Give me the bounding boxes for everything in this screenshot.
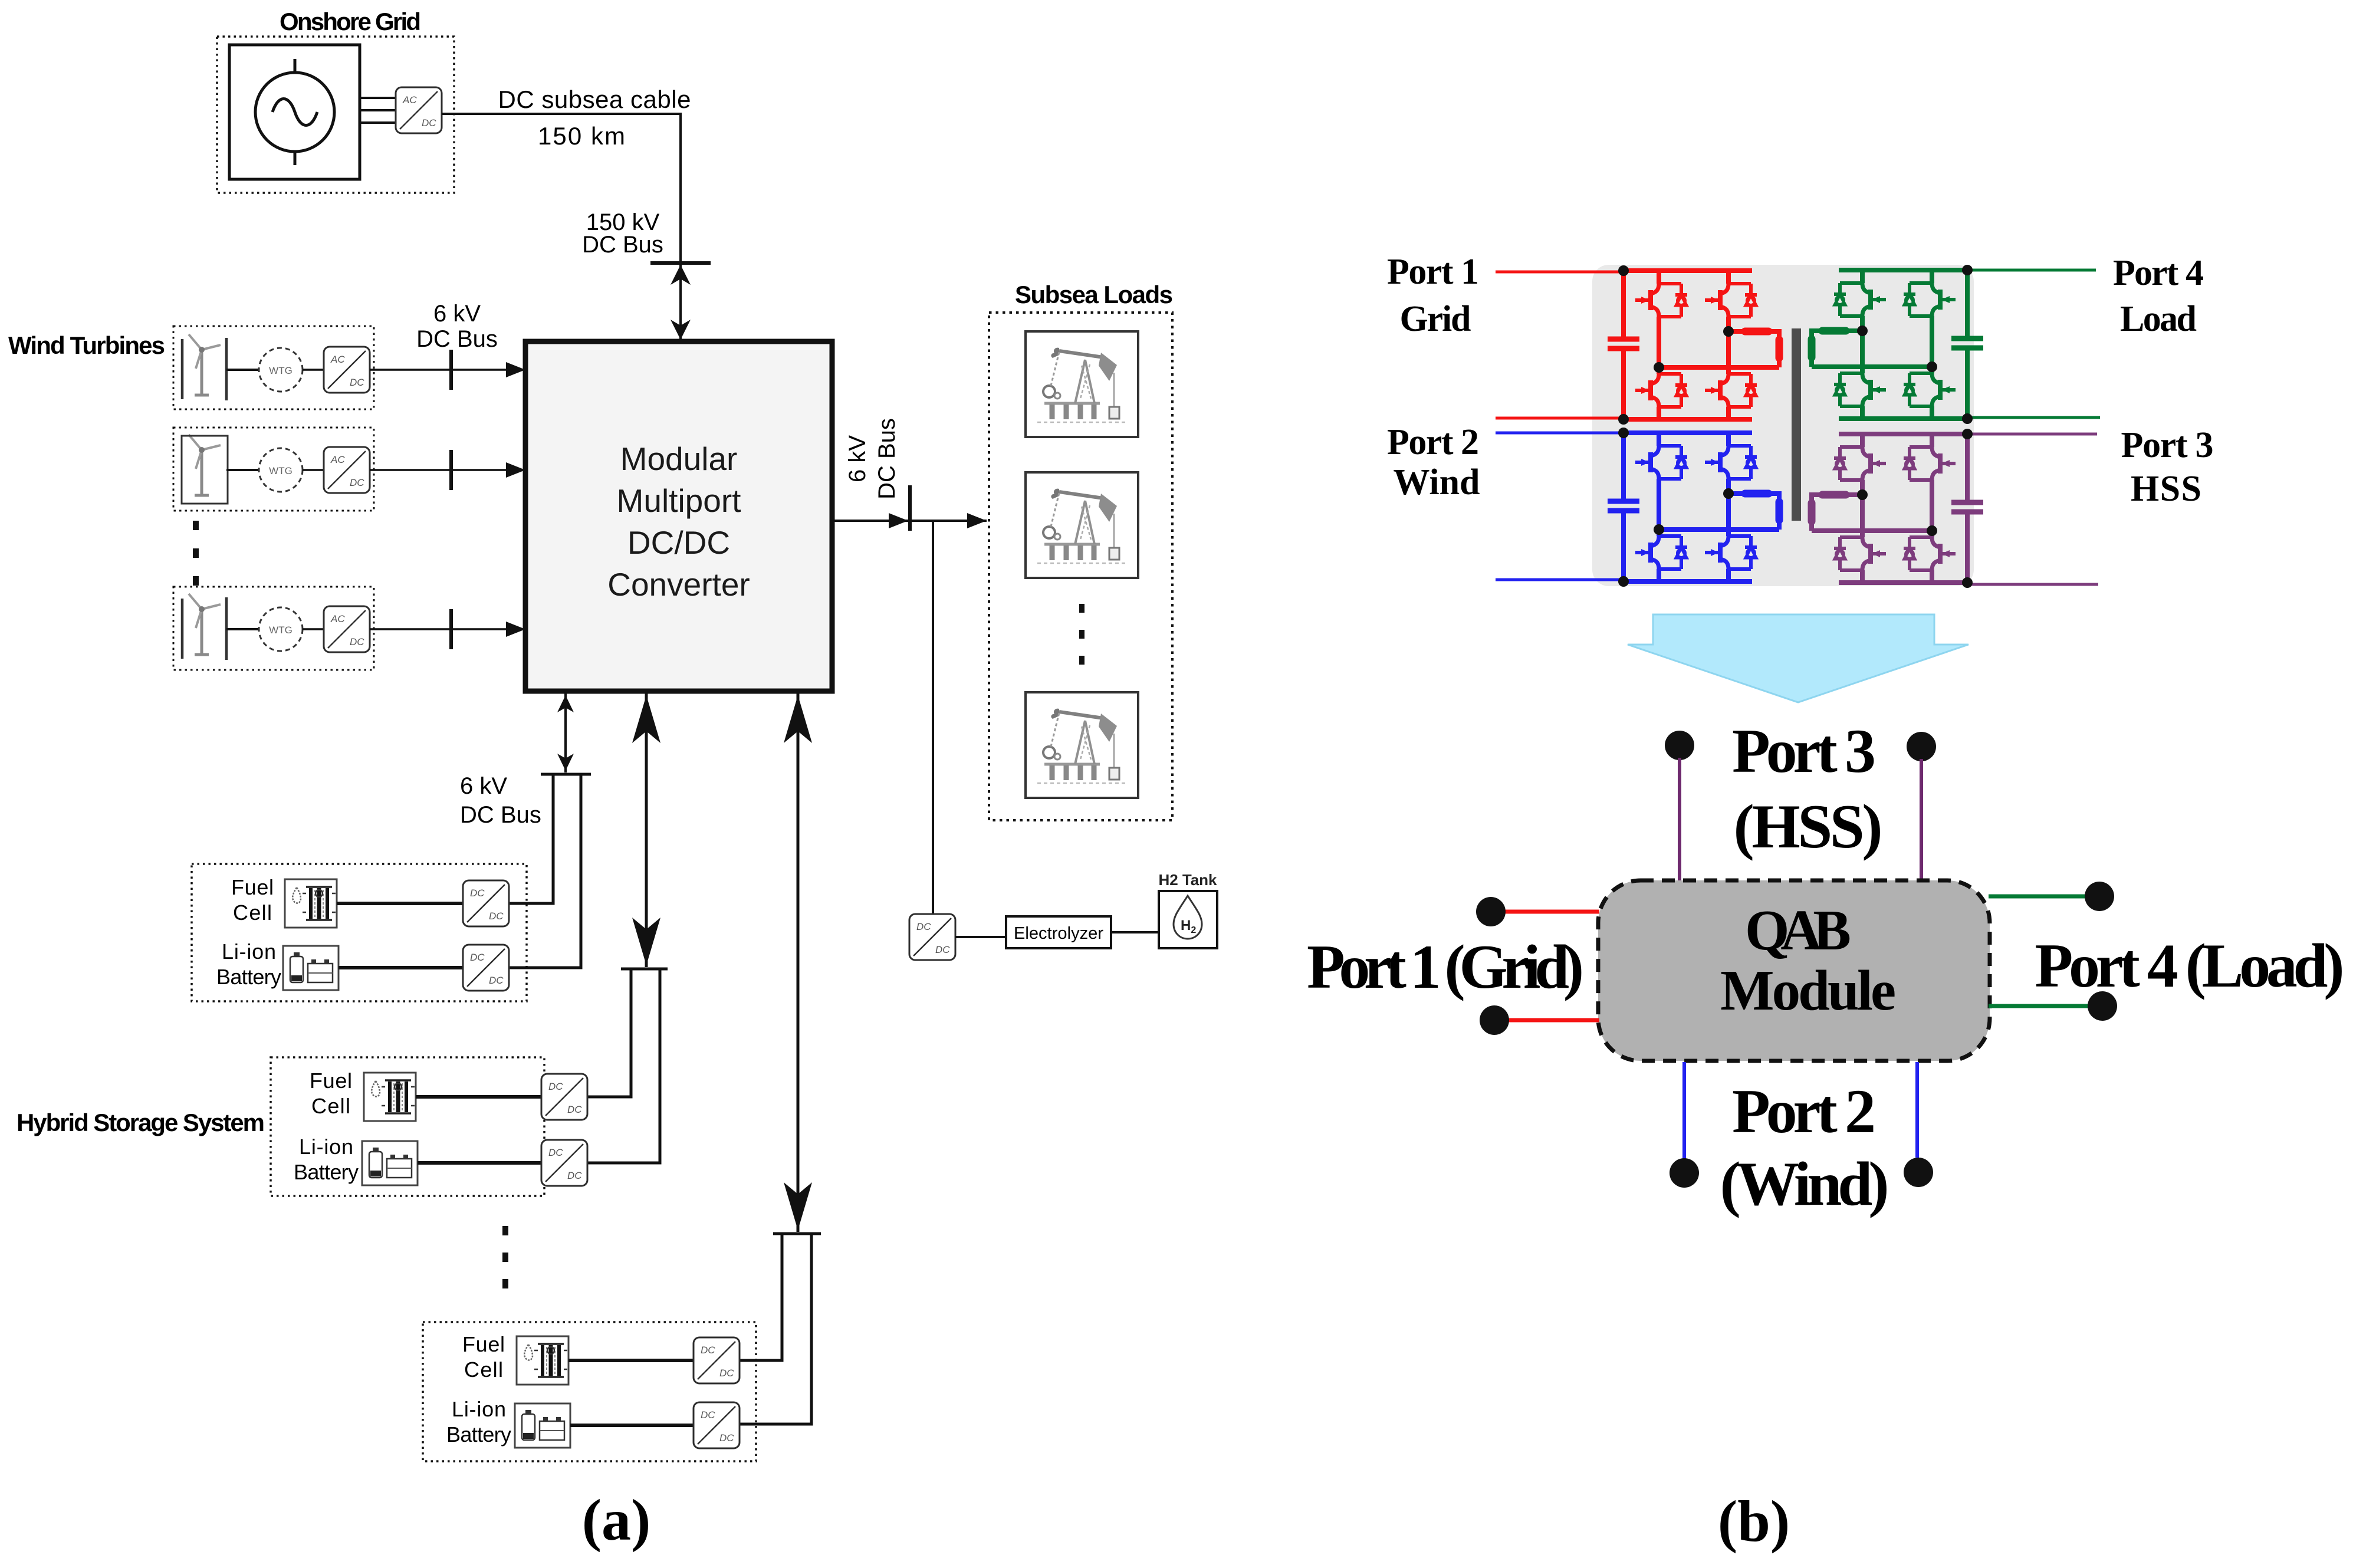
svg-text:150 km: 150 km — [538, 122, 625, 150]
node HSS1 bus bar — [541, 773, 591, 776]
electrolyzer box — [1006, 916, 1111, 948]
wire converter to bus — [370, 369, 521, 371]
wire port 4 lines — [1967, 270, 2100, 418]
svg-text:Battery: Battery — [446, 1422, 511, 1447]
node dot port4 bottom — [2088, 991, 2117, 1021]
wire port2 stubs — [1684, 1062, 1917, 1159]
svg-text:WTG: WTG — [269, 365, 293, 376]
node dot port3 right — [1907, 732, 1936, 761]
node 6 kV DC bus tick (output) — [908, 485, 912, 531]
svg-text:(a): (a) — [582, 1487, 651, 1553]
svg-text:Port 4: Port 4 — [2113, 253, 2204, 293]
converter AC/DC WT2 — [324, 447, 370, 493]
wire big double arrow to HSS3 bus — [797, 693, 800, 1232]
svg-text:Li-ion: Li-ion — [299, 1135, 353, 1159]
wire HSS2 fuel cell riser — [588, 969, 631, 1097]
subsea load pump 2 — [1026, 472, 1138, 578]
node 6 kV bus tick 3 — [449, 609, 453, 649]
wire WTG to converter — [303, 628, 324, 630]
AC source box — [229, 45, 360, 179]
fuel cell FC3 — [517, 1336, 568, 1385]
wire HSS2 battery riser — [588, 969, 660, 1163]
svg-text:Converter: Converter — [607, 566, 750, 603]
converter DC/DC BAT2 — [541, 1140, 587, 1186]
svg-text:DC Bus: DC Bus — [416, 326, 498, 352]
svg-text:Fuel: Fuel — [310, 1069, 352, 1093]
svg-text:DC subsea cable: DC subsea cable — [498, 86, 691, 113]
svg-text:Li-ion: Li-ion — [452, 1397, 506, 1421]
wire HSS1 fuel cell riser — [508, 774, 553, 903]
svg-text:Wind: Wind — [1394, 462, 1480, 502]
converter AC/DC onshore — [396, 87, 442, 133]
svg-text:6 kV: 6 kV — [844, 435, 870, 482]
battery BAT3 — [515, 1403, 570, 1448]
node dot port4 top — [2085, 882, 2114, 911]
wind turbine WT1 — [189, 334, 221, 395]
full-bridge port 1 (red) — [1608, 265, 1779, 425]
svg-text:Subsea Loads: Subsea Loads — [1015, 281, 1173, 308]
svg-text:Battery: Battery — [294, 1160, 359, 1184]
wire port3 stubs — [1680, 758, 1921, 882]
H2 tank box — [1159, 891, 1217, 948]
svg-text:Fuel: Fuel — [231, 875, 274, 899]
wind turbine group 1 dotted box — [173, 326, 374, 409]
svg-text:Multiport: Multiport — [617, 482, 741, 519]
node HSS2 bus bar — [621, 968, 668, 971]
svg-text:Hybrid Storage System: Hybrid Storage System — [17, 1109, 265, 1136]
svg-text:WTG: WTG — [269, 465, 293, 476]
fuel cell FC1 — [285, 879, 337, 928]
wire DC subsea cable — [442, 114, 681, 263]
wire port 3 lines — [1967, 434, 2098, 584]
arrow into converter 2 — [506, 462, 525, 478]
wire fuel cell to converter — [568, 1359, 694, 1362]
wire port 1 lines — [1496, 272, 1624, 418]
svg-text:Battery: Battery — [216, 965, 281, 989]
node 150 kV DC bus bar — [650, 261, 711, 265]
node dot port1 top — [1476, 897, 1506, 926]
svg-text:Onshore Grid: Onshore Grid — [280, 8, 421, 35]
QAB background panel — [1592, 265, 1974, 586]
subsea load pump 3 — [1026, 692, 1138, 798]
full-bridge port 2 (blue) — [1608, 428, 1779, 587]
wire electrolyzer to H2 tank — [1111, 931, 1159, 933]
wire port1 stubs — [1505, 912, 1599, 1020]
wire HSS3 fuel cell riser — [740, 1234, 782, 1360]
converter DC/DC BAT3 — [694, 1402, 740, 1448]
svg-text:(Wind): (Wind) — [1720, 1149, 1889, 1218]
generator WTG3 — [259, 607, 303, 651]
wire turbine to WTG — [226, 628, 259, 630]
wire converter to bus — [370, 628, 521, 630]
generator WTG1 — [259, 348, 303, 392]
wire battery to converter — [570, 1424, 694, 1427]
wind turbine WT2 — [189, 435, 221, 495]
arrow into converter 3 — [506, 622, 525, 637]
svg-text:Wind Turbines: Wind Turbines — [8, 331, 165, 359]
dots between wind rows — [193, 521, 199, 586]
wire battery to converter — [339, 966, 463, 969]
svg-text:Port 4 (Load): Port 4 (Load) — [2035, 931, 2345, 1000]
svg-text:WTG: WTG — [269, 624, 293, 636]
converter DC/DC electrolyzer — [909, 914, 955, 960]
onshore grid dotted box — [217, 37, 454, 193]
wire converter to bus — [370, 469, 521, 471]
big cyan arrow — [1628, 614, 1968, 702]
wire fuel cell to converter — [337, 902, 463, 905]
wire big double arrow to HSS2 bus — [645, 693, 648, 967]
wire HSS3 battery riser — [740, 1234, 811, 1424]
generator WTG2 — [259, 448, 303, 492]
converter DC/DC FC3 — [694, 1337, 740, 1383]
wind turbine WT3 — [189, 594, 221, 655]
svg-text:Module: Module — [1720, 959, 1896, 1022]
wire small double arrow to HSS1 bus — [564, 693, 567, 773]
wind turbine group 2 dotted box — [173, 428, 374, 511]
svg-text:Port 3: Port 3 — [2121, 425, 2214, 465]
subsea load pump 1 — [1026, 331, 1138, 437]
hybrid storage group 2 dotted box — [271, 1057, 544, 1196]
svg-text:Port 1 (Grid): Port 1 (Grid) — [1307, 932, 1584, 1001]
wire battery to converter — [418, 1161, 541, 1165]
svg-text:DC Bus: DC Bus — [460, 802, 541, 828]
full-bridge port 3 (purple) — [1812, 429, 1983, 588]
wire converter output to subsea loads — [834, 520, 987, 522]
wire fuel cell to converter — [416, 1095, 541, 1099]
converter AC/DC WT1 — [324, 347, 370, 393]
svg-text:Cell: Cell — [233, 900, 272, 925]
svg-text:Port 1: Port 1 — [1387, 252, 1479, 292]
svg-text:Load: Load — [2120, 299, 2197, 339]
wire bus to converter, double arrow — [679, 263, 682, 341]
svg-text:QAB: QAB — [1745, 899, 1851, 962]
AC source G1 — [255, 59, 334, 165]
svg-text:DC Bus: DC Bus — [582, 232, 663, 258]
svg-text:(b): (b) — [1718, 1488, 1790, 1554]
node dot port3 left — [1665, 731, 1694, 760]
converter DC/DC FC2 — [541, 1074, 587, 1120]
svg-text:6 kV: 6 kV — [433, 301, 481, 327]
fuel cell FC2 — [364, 1073, 416, 1121]
svg-text:Modular: Modular — [620, 441, 738, 477]
arrow into subsea loads — [967, 513, 987, 528]
dots between pumps — [1079, 604, 1085, 665]
subsea loads dotted box — [989, 313, 1172, 820]
svg-text:H2 Tank: H2 Tank — [1159, 871, 1218, 889]
svg-text:Electrolyzer: Electrolyzer — [1014, 924, 1103, 943]
wind turbine group 3 dotted box — [173, 587, 374, 670]
node dot port2 left — [1670, 1158, 1699, 1188]
converter DC/DC BAT1 — [463, 945, 509, 991]
svg-text:Port 2: Port 2 — [1732, 1077, 1876, 1146]
wire junction down to electrolyzer converter — [932, 521, 934, 915]
converter block: Modular Multiport DC/DC Converter — [525, 341, 832, 691]
converter AC/DC WT3 — [324, 606, 370, 652]
svg-text:Port 3: Port 3 — [1732, 716, 1876, 785]
converter DC/DC FC1 — [463, 880, 509, 926]
arrow into converter 1 — [506, 362, 525, 377]
node dot port2 right — [1904, 1158, 1933, 1187]
wire port4 stubs — [1989, 896, 2088, 1006]
full-bridge port 4 (green) — [1812, 265, 1983, 424]
battery BAT1 — [283, 946, 339, 990]
svg-text:Fuel: Fuel — [462, 1332, 505, 1356]
node 6 kV bus tick 1 — [449, 350, 453, 390]
svg-text:Li-ion: Li-ion — [222, 939, 276, 964]
node 6 kV bus tick 2 — [449, 450, 453, 490]
H2 droplet — [1174, 896, 1202, 939]
svg-text:Port 2: Port 2 — [1387, 422, 1479, 462]
dots between HSS2 and HSS3 — [502, 1226, 508, 1288]
battery BAT2 — [362, 1141, 418, 1185]
node dot port1 bottom — [1480, 1005, 1509, 1035]
hybrid storage group 3 dotted box — [423, 1322, 756, 1461]
svg-text:DC Bus: DC Bus — [874, 418, 900, 499]
wire turbine to WTG — [226, 469, 259, 471]
svg-text:DC/DC: DC/DC — [627, 524, 730, 561]
svg-text:(HSS): (HSS) — [1734, 792, 1883, 861]
wire converter to electrolyzer — [955, 936, 1006, 938]
wire 3-phase — [360, 98, 397, 123]
svg-text:HSS: HSS — [2131, 469, 2201, 509]
wire HSS1 battery riser — [508, 774, 581, 968]
svg-text:Grid: Grid — [1400, 299, 1471, 339]
wire WTG to converter — [303, 369, 324, 371]
wire turbine to WTG — [226, 369, 259, 371]
arrow on output wire — [889, 513, 908, 528]
node HSS3 bus bar — [773, 1232, 821, 1235]
svg-text:Cell: Cell — [464, 1357, 503, 1382]
QAB module box — [1598, 880, 1990, 1061]
svg-text:Cell: Cell — [311, 1094, 350, 1118]
transformer core bar — [1792, 328, 1801, 521]
wire WTG to converter — [303, 469, 324, 471]
hybrid storage group 1 dotted box — [192, 864, 527, 1001]
svg-text:6 kV: 6 kV — [460, 773, 507, 799]
wire port 2 lines — [1496, 433, 1624, 580]
